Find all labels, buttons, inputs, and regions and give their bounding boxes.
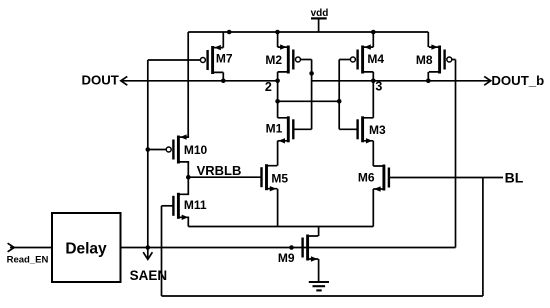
transistor M6 (NMOS)	[373, 165, 389, 192]
wire cross-couple lower (node 2 to M4/M3 gates)	[278, 100, 340, 102]
transistor M8 (PMOS)	[429, 44, 452, 73]
wire M11 gate lead	[162, 205, 174, 207]
svg-text:VRBLB: VRBLB	[197, 163, 242, 178]
svg-text:DOUT: DOUT	[82, 73, 119, 88]
bottom wire (BL to M11 gate)	[162, 295, 483, 297]
VRBLB wire to M5 gate	[188, 176, 261, 178]
transistor M4 (PMOS)	[350, 44, 373, 73]
Read_EN input arrow	[8, 243, 15, 252]
BL wire from M6 gate	[389, 177, 503, 179]
svg-text:M6: M6	[358, 171, 375, 185]
vdd supply symbol	[311, 8, 329, 32]
svg-text:M4: M4	[367, 52, 384, 66]
wire cross-couple right (M4/M3 gates)	[338, 60, 340, 130]
junction SAEN to M9 gate	[289, 245, 294, 250]
DOUT output arrow	[121, 76, 128, 85]
junction M7 drain on node 2 line	[221, 79, 226, 84]
junction SAEN vertical to M10 gate	[146, 147, 151, 152]
wire M2 gate lead	[301, 59, 312, 61]
svg-text:M3: M3	[369, 123, 386, 137]
wire M7 gate to SAEN (left vertical)	[147, 60, 149, 258]
wire cross-couple left (M2/M1 gates to node 3)	[311, 60, 313, 130]
transistor M7 (PMOS)	[200, 45, 223, 74]
svg-text:SAEN: SAEN	[130, 268, 168, 283]
svg-text:Delay: Delay	[65, 240, 107, 257]
wire M8 drain to DOUT_b line	[427, 72, 429, 81]
junction VRBLB node	[186, 175, 191, 180]
wire M5 source to tail wire	[277, 189, 279, 227]
wire M1 source to M5 drain	[277, 141, 279, 166]
wire BL down to bottom wire	[482, 178, 484, 297]
vdd power rail	[188, 31, 428, 33]
transistor M10 (PMOS)	[166, 134, 189, 163]
wire M9 source to ground	[318, 259, 320, 282]
svg-text:DOUT_b: DOUT_b	[491, 73, 544, 88]
svg-text:M2: M2	[265, 53, 282, 67]
SAEN arrow (down)	[143, 252, 152, 259]
svg-text:M11: M11	[184, 198, 207, 212]
junction on cross-couple left wire	[309, 71, 314, 76]
junction node 2 vertical and cross wire	[275, 99, 280, 104]
svg-text:M7: M7	[216, 51, 233, 65]
junction cross wire to M4/M3 gate wire	[337, 99, 342, 104]
wire M6 source to tail wire	[372, 189, 374, 227]
node 3 / DOUT_b wire	[312, 80, 491, 82]
svg-text:M1: M1	[266, 122, 283, 136]
wire M2 source to rail	[277, 32, 279, 47]
svg-text:3: 3	[375, 80, 382, 94]
wire M10 gate lead	[148, 149, 166, 151]
transistor M5 (NMOS)	[262, 164, 278, 191]
wire M3 gate lead	[339, 128, 357, 130]
wire M9 drain to tail wire	[318, 227, 320, 237]
transistor M11 (NMOS)	[173, 193, 189, 220]
wire M11 source to tail wire	[187, 217, 189, 226]
svg-text:M9: M9	[278, 251, 295, 265]
transistor M9 (NMOS)	[303, 235, 319, 262]
ground symbol	[309, 282, 329, 290]
svg-text:vdd: vdd	[311, 8, 329, 19]
wire M8 gate to SAEN (right vertical)	[455, 60, 457, 248]
wire M10 drain to VRBLB node	[187, 162, 189, 177]
DOUT_b output arrow	[484, 76, 491, 85]
wire M1 gate lead	[293, 128, 311, 130]
transistor M1 (NMOS)	[278, 116, 294, 143]
junction SAEN wire to left vertical	[146, 245, 151, 250]
transistor M3 (NMOS)	[358, 116, 374, 143]
junction node 3	[371, 79, 376, 84]
junction M8 drain on node 3 line	[426, 79, 431, 84]
wire M4 gate lead	[339, 59, 350, 61]
svg-text:Read_EN: Read_EN	[7, 254, 49, 265]
wire M7 source to rail	[222, 32, 224, 48]
SAEN wire from Delay to M8 gate	[121, 247, 456, 249]
junction rail near M7	[227, 30, 232, 35]
node 2 / DOUT wire	[121, 80, 278, 82]
svg-text:BL: BL	[505, 170, 524, 186]
wire M8 gate lead	[452, 59, 456, 61]
wire M11 gate to bottom BL wire	[161, 206, 163, 296]
svg-text:2: 2	[265, 80, 272, 94]
wire M7 drain to DOUT line	[222, 72, 224, 80]
wire M3 source to M6 drain	[372, 141, 374, 166]
junction M4 source on rail	[371, 30, 376, 35]
tail wire (sources of M5/M6/M11 to M9 drain)	[188, 226, 373, 228]
svg-text:M5: M5	[271, 172, 288, 186]
junction M2 source on rail	[275, 30, 280, 35]
wire M4 drain / node 3 vertical to M3 drain	[372, 72, 374, 118]
svg-text:M10: M10	[184, 143, 208, 157]
Read_EN input wire	[10, 247, 52, 249]
wire M2 drain / node 2 vertical to M1 drain	[277, 72, 279, 118]
wire M11 drain to VRBLB node	[187, 177, 189, 194]
Delay block	[52, 213, 121, 282]
wire M4 source to rail	[372, 32, 374, 47]
svg-text:M8: M8	[416, 53, 433, 67]
wire vdd rail to M10 source	[187, 32, 189, 137]
wire M7 gate lead	[148, 59, 201, 61]
transistor M2 (PMOS)	[278, 44, 301, 73]
junction node 2	[275, 79, 280, 84]
wire rail end down to M8 source	[427, 32, 429, 47]
